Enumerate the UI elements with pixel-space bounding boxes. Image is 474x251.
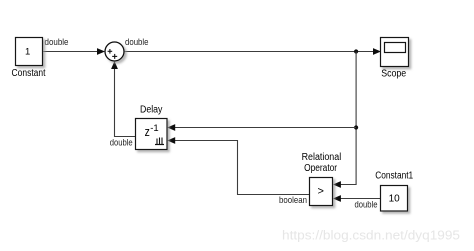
label Relational Operator	[302, 152, 342, 174]
svg-text:double: double	[355, 199, 378, 210]
wire W2: Sum to Scope	[124, 48, 381, 55]
svg-text:double: double	[125, 37, 149, 48]
svg-text:Scope: Scope	[381, 68, 406, 79]
delay reset icon	[155, 138, 164, 145]
wire W7: Delay output to Sum input 2	[111, 61, 135, 137]
svg-text:double: double	[110, 137, 133, 148]
junction dot on branch line	[354, 125, 358, 129]
svg-text:Operator: Operator	[304, 163, 338, 174]
svg-text:double: double	[45, 37, 69, 48]
relational operator block	[310, 178, 333, 206]
svg-text:10: 10	[389, 194, 401, 205]
constant block Constant	[16, 38, 43, 66]
junction dot on main line	[354, 49, 358, 53]
svg-text:boolean: boolean	[279, 195, 307, 206]
wire W1: Constant to Sum	[43, 48, 105, 55]
constant block Constant1	[381, 186, 408, 212]
wire W3: branch down to Relational Operator input 1	[333, 52, 356, 188]
wire W5: Relational Operator output to Delay reset input	[167, 137, 309, 194]
svg-text:Constant: Constant	[12, 68, 46, 79]
svg-text:Delay: Delay	[140, 105, 162, 116]
svg-text:-1: -1	[150, 123, 158, 134]
svg-text:1: 1	[25, 47, 30, 58]
scope block Scope	[381, 38, 409, 67]
delay block Delay	[136, 119, 168, 150]
wire W4: branch to Delay input 1	[167, 124, 356, 131]
svg-text:Constant1: Constant1	[375, 171, 413, 182]
sum junction U1	[105, 42, 124, 61]
svg-text:Relational: Relational	[302, 152, 342, 163]
svg-text:>: >	[317, 186, 323, 198]
svg-text:z: z	[145, 124, 150, 139]
svg-text:https://blog.csdn.net/dyq1995: https://blog.csdn.net/dyq1995	[282, 229, 460, 243]
wire W6: Constant1 to Relational Operator input 2	[333, 195, 381, 202]
